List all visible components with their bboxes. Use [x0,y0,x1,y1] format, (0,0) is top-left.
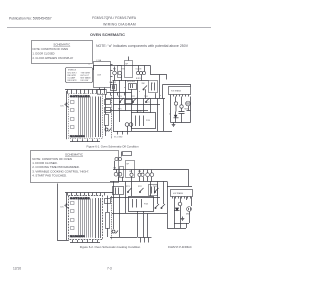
cook relay coil box [105,100,111,105]
svg-text:SCHEMATIC: SCHEMATIC [53,43,70,47]
svg-text:SCHEMATIC: SCHEMATIC [65,152,84,156]
relay contact RY3 [155,204,159,209]
relay RY1 contact [118,96,124,103]
midband wire row 2c [112,213,167,215]
schematic note box 2 [31,151,119,183]
midband bottom bus [113,131,172,133]
thermal cutout TCO2 [153,186,159,193]
primary interlock switch block [110,82,117,90]
power control board PCB2 [129,197,154,212]
terminal sub block [98,88,107,95]
hv diode D1 [169,112,179,123]
wire hv feed [65,89,106,91]
svg-text:RY1: RY1 [126,186,130,188]
svg-text:DM D.MTR: DM D.MTR [68,80,78,82]
svg-text:a: a [112,80,113,82]
svg-text:SYMBOLS: SYMBOLS [68,70,77,72]
wire upper link 2 [114,161,116,170]
component legend box [66,68,93,83]
midband wire row 3 [106,110,148,112]
node labels a [112,80,161,113]
svg-text:P.HEAT: P.HEAT [136,110,143,113]
control unit CU1 dashed enclosure [69,94,103,139]
svg-text:WIRING DIAGRAM: WIRING DIAGRAM [103,23,136,27]
left rail [66,91,68,139]
magnetron MGT [185,101,191,110]
svg-text:2. CLOCK APPEARS ON DISPLAY: 2. CLOCK APPEARS ON DISPLAY [33,56,74,60]
control unit CU2 dashed enclosure [69,196,103,240]
svg-text:FGMV17QFA / FGMV17WFA: FGMV17QFA / FGMV17WFA [92,16,137,20]
relay contact RY4 [161,204,165,209]
relay RY1 contact 2 [126,186,132,193]
midband wire row 2 [113,104,160,106]
legend text column 2 [81,72,92,82]
svg-text:12/16: 12/16 [13,267,21,271]
motor pair 2 [138,170,144,176]
secondary interlock switch block [127,81,137,90]
oven lamp OL2 [129,170,133,176]
midband wire row 2a [110,181,167,183]
svg-text:MON.SW: MON.SW [127,81,135,83]
svg-text:NOTE: “a” Indicates components: NOTE: “a” Indicates components with pote… [96,44,189,48]
svg-text:DS D.SW: DS D.SW [81,80,89,82]
top row label texture [121,68,142,70]
wire top feed 2 [121,152,123,157]
interlock relay box [118,66,122,78]
power entry terminal box [94,59,113,88]
wire circle drops [114,75,149,81]
motor TTM [118,71,122,75]
svg-text:SW: SW [142,83,145,85]
left return wire 2 [58,184,69,241]
motor pair 3 [146,170,154,177]
svg-text:a: a [152,83,153,85]
svg-text:INT.SW: INT.SW [110,82,117,84]
relay RY2 contact 2 [138,186,144,193]
line filter box 2 [123,152,132,156]
svg-text:Figure 6-1. Oven Schematic-Of: Figure 6-1. Oven Schematic-Off Condition [86,144,138,148]
noise filter NTC box [125,57,133,78]
wire top bus L1 [94,66,151,71]
svg-text:TCO: TCO [144,96,149,98]
svg-text:RY2: RY2 [131,96,135,98]
midband upper link wires [126,80,156,99]
midband vertical wires 2 [114,181,164,237]
legend text column 1 [68,70,78,82]
control unit ribbon conductors [79,97,93,138]
midband vertical wires [114,80,164,131]
motor FM [113,67,117,75]
relay contacts K1-K4 unit 2 [71,202,75,230]
magnetron MGT2 [186,207,191,223]
svg-text:DM: DM [138,171,141,173]
svg-text:RY1: RY1 [118,96,122,98]
motor FM2 [114,168,118,177]
svg-text:H.V.TRANS: H.V.TRANS [173,192,184,195]
svg-text:TCO: TCO [153,186,158,188]
lamp relay coil box [105,108,111,113]
interlock monitor switch block 2 [113,187,124,195]
svg-text:RY2: RY2 [138,186,142,188]
hv transformer secondary wires [171,97,191,123]
control unit bus lines 2 [96,198,101,238]
svg-text:a: a [124,87,125,89]
control unit ribbon conductors 2 [79,199,93,238]
relay contacts K1-K4 [71,101,75,129]
hv ground G1 [171,123,191,127]
header rule [7,27,211,29]
hv capacitor C1 [174,102,184,123]
enclosure dashed edge [111,95,113,139]
oven lamp OL [136,66,146,80]
hv transformer T1 [169,87,191,97]
wire elbow to hv section [151,66,167,80]
connector pins below control unit [70,139,100,141]
svg-text:Figure 6-2. Oven Schematic-Co: Figure 6-2. Oven Schematic-Cooking Condi… [80,245,141,249]
svg-text:DS: DS [61,207,65,209]
door switch contact [142,83,148,90]
relay unit block [149,81,158,93]
buzzer BZ2 [112,230,118,234]
relay unit block 2 [149,185,158,196]
wire drop to midband [159,75,161,99]
svg-text:OL: OL [129,171,132,173]
svg-text:TTM: TTM [121,68,125,70]
svg-text:N L1 GND: N L1 GND [114,137,123,139]
hv ground G2 [181,217,185,221]
control unit bus lines [96,97,101,138]
hv capacitor C2 [178,202,182,223]
wire above transformer 2 [167,186,192,188]
connector stubs into control unit 2 [68,193,105,196]
hv bottom stubs 2 [167,223,187,229]
svg-text:NOTE: CONDITION OF OVEN: NOTE: CONDITION OF OVEN [33,47,69,51]
thermal cutout TCO [144,96,150,103]
svg-text:FGMV17-P-4FR6AC: FGMV17-P-4FR6AC [168,245,192,249]
hv bottom bus 2 [174,223,189,225]
svg-text:OVEN SCHEMATIC: OVEN SCHEMATIC [90,32,125,37]
hv transformer secondary wires 2 [175,197,192,223]
enclosure dashed edge 2 [111,196,113,240]
svg-text:FM: FM [113,69,116,71]
svg-text:7-3: 7-3 [107,267,112,271]
hv transformer T2 [171,190,193,199]
left rail 2 [66,193,68,240]
relay RY2 contact [131,96,137,103]
upper lamp pair 2 [115,157,122,160]
schematic note box 1 [32,41,93,64]
cook relay coil box 2 [105,199,111,204]
svg-text:Publication No: 5995454567: Publication No: 5995454567 [9,17,52,21]
hv diode D2 [174,208,180,211]
connector pins below control unit 2 [70,240,100,243]
power control board PCB [132,113,156,129]
wire hv feed 2 [65,192,113,194]
svg-text:DS: DS [61,106,65,108]
motor TTM2 [118,172,122,176]
wire transformer feed [163,85,191,87]
midband bottom bus 2 [110,237,137,239]
lower right connector cluster [138,214,152,243]
varistor VA1 [105,94,109,136]
connector stubs into control unit [68,90,105,94]
door sensing switch DS [61,103,69,108]
interlock relay box 2 [120,167,124,178]
wire drop hv left [162,85,164,99]
varistor VA2 [106,196,110,238]
midband wire row 0 [107,93,132,96]
buzzer BZ [105,128,111,132]
wire hv link 2 [167,181,169,228]
svg-text:1. DOOR CLOSED: 1. DOOR CLOSED [33,52,55,56]
svg-text:H.V.TRANS: H.V.TRANS [171,90,182,93]
wire circle drops 2 [119,177,152,182]
timer motor pair [125,123,133,131]
door sensing switch DS2 [61,204,69,209]
lower tick marks [114,131,128,139]
svg-text:a: a [139,91,140,93]
fuse holder box [125,100,133,104]
midband wire row 1 [106,98,165,100]
noise filter NF2 box [126,161,135,178]
midband wire row 2b [110,197,160,199]
svg-text:a: a [160,95,161,97]
wire top bus 2 [113,170,189,187]
svg-text:4. START PAD TOUCHED.: 4. START PAD TOUCHED. [32,174,67,178]
